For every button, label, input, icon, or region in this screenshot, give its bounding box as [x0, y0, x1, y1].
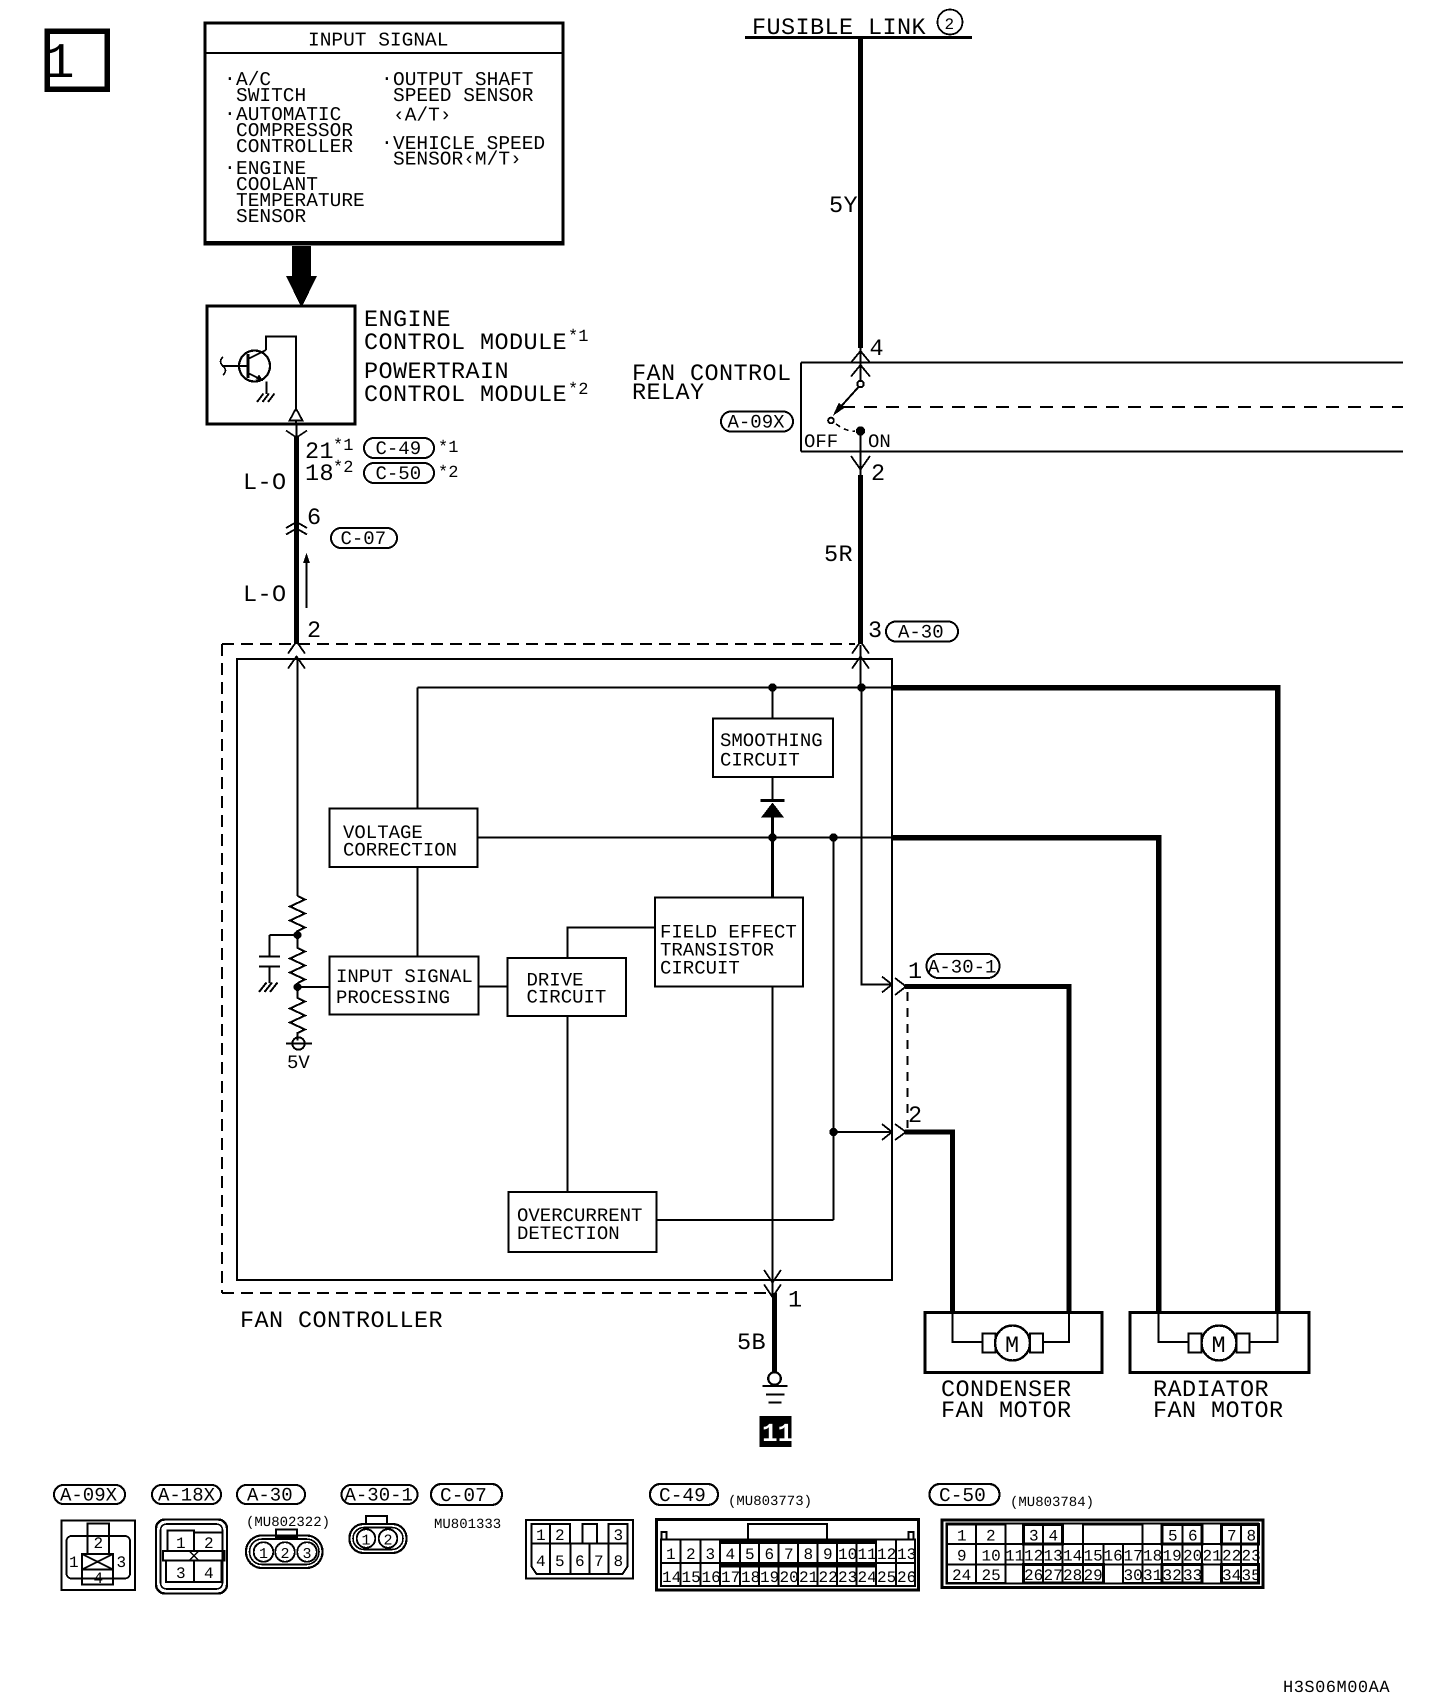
svg-text:CIRCUIT: CIRCUIT: [527, 987, 607, 1009]
svg-text:8: 8: [614, 1553, 624, 1571]
svg-text:1: 1: [536, 1527, 546, 1545]
resistor R1: [290, 896, 305, 935]
svg-text:L-O: L-O: [243, 582, 287, 609]
svg-text:*1: *1: [333, 437, 353, 456]
svg-text:A-30: A-30: [898, 622, 944, 644]
svg-text:CORRECTION: CORRECTION: [343, 840, 457, 862]
svg-text:5: 5: [1168, 1528, 1178, 1546]
transistor Q1 inside module: [221, 350, 271, 382]
svg-text:2: 2: [686, 1546, 696, 1564]
connector crossing 21/18 below module: [286, 431, 458, 489]
svg-text:9: 9: [957, 1548, 967, 1566]
svg-text:L-O: L-O: [243, 470, 287, 497]
svg-text:C-07: C-07: [440, 1485, 487, 1507]
connector A-18X pinout: [156, 1520, 227, 1594]
svg-text:11: 11: [858, 1546, 877, 1564]
svg-text:6: 6: [1188, 1528, 1198, 1546]
svg-text:22: 22: [819, 1569, 838, 1587]
svg-text:31: 31: [1143, 1567, 1162, 1585]
condenser fan motor M1: [925, 1313, 1102, 1373]
svg-text:SENSOR: SENSOR: [236, 206, 307, 228]
svg-text:16: 16: [702, 1569, 721, 1587]
svg-text:INPUT SIGNAL: INPUT SIGNAL: [308, 30, 448, 52]
svg-text:14: 14: [1063, 1548, 1082, 1566]
connector C-49 pinout: [657, 1520, 919, 1591]
ground symbol: [763, 1372, 788, 1402]
svg-text:1: 1: [176, 1535, 186, 1553]
svg-text:21: 21: [799, 1569, 818, 1587]
wire tap to ISP: [298, 986, 330, 988]
wire ISP to drive: [479, 986, 508, 988]
svg-text:6: 6: [575, 1553, 585, 1571]
fan controller inner solid box: [237, 659, 892, 1280]
svg-text:6: 6: [765, 1546, 775, 1564]
node dot main wire junction: [857, 683, 865, 691]
svg-text:H3S06M00AA: H3S06M00AA: [1283, 1679, 1390, 1698]
wire L-O from module: [295, 424, 297, 436]
collector wire to output triangle: [266, 337, 296, 409]
svg-text:19: 19: [1163, 1548, 1182, 1566]
svg-text:DETECTION: DETECTION: [517, 1223, 620, 1245]
connector tag A-30: [237, 1485, 305, 1507]
svg-text:18: 18: [305, 461, 334, 488]
svg-text:3: 3: [303, 1546, 312, 1563]
svg-text:32: 32: [1163, 1567, 1182, 1585]
svg-text:24: 24: [952, 1567, 971, 1585]
svg-text:18: 18: [1143, 1548, 1162, 1566]
svg-text:PROCESSING: PROCESSING: [336, 987, 450, 1009]
connector C-07 pinout: [526, 1520, 633, 1579]
svg-text:6: 6: [307, 505, 322, 532]
relay energize dashed line: [842, 406, 1403, 408]
relay pin 4: [851, 336, 884, 377]
fan control relay label: [632, 361, 792, 407]
svg-text:2: 2: [555, 1527, 565, 1545]
svg-text:FAN MOTOR: FAN MOTOR: [1153, 1398, 1284, 1425]
svg-text:25: 25: [877, 1569, 896, 1587]
supply rail top: [418, 687, 893, 689]
node junction signal tap: [294, 983, 302, 991]
wire diode to FET: [771, 817, 774, 898]
svg-text:1: 1: [69, 1554, 79, 1572]
wire 5B: [772, 1293, 777, 1372]
svg-text:11: 11: [1005, 1548, 1024, 1566]
svg-text:CONTROL MODULE: CONTROL MODULE: [364, 330, 567, 357]
svg-text:1: 1: [908, 959, 923, 986]
svg-text:*1: *1: [438, 439, 458, 458]
pin 2 A-30-1 crossing: [882, 1103, 923, 1140]
svg-text:20: 20: [780, 1569, 799, 1587]
svg-text:M: M: [1212, 1333, 1227, 1360]
svg-text:ON: ON: [868, 431, 891, 453]
svg-text:8: 8: [1247, 1528, 1257, 1546]
svg-text:1: 1: [666, 1546, 676, 1564]
svg-text:2: 2: [871, 461, 886, 488]
node dot diode line junction: [768, 833, 776, 841]
svg-text:2: 2: [945, 16, 955, 34]
C-49 keyed band: [720, 1540, 876, 1545]
fan control relay box: [801, 363, 1403, 452]
svg-text:5V: 5V: [287, 1052, 310, 1074]
svg-text:26: 26: [897, 1569, 916, 1587]
svg-text:‹A/T›: ‹A/T›: [393, 105, 452, 127]
svg-text:4: 4: [204, 1565, 214, 1583]
svg-text:MU801333: MU801333: [434, 1517, 501, 1533]
svg-text:20: 20: [1183, 1548, 1202, 1566]
svg-text:13: 13: [1044, 1548, 1063, 1566]
wire drive to overcurrent: [567, 1016, 569, 1193]
svg-text:2: 2: [94, 1535, 104, 1553]
svg-text:28: 28: [1063, 1567, 1082, 1585]
INPUT SIGNAL list right column: [381, 68, 545, 171]
radiator feed wire upper: [892, 688, 1278, 1314]
svg-text:1: 1: [362, 1533, 371, 1550]
engine control module box U1: [207, 306, 355, 424]
input signal processing box: [330, 957, 479, 1015]
svg-text:M: M: [1005, 1333, 1020, 1360]
node dot smoothing tap: [768, 683, 776, 691]
wire 5Y: [858, 38, 863, 349]
wire from A-30 into controller: [859, 645, 861, 688]
svg-text:35: 35: [1242, 1567, 1261, 1585]
connector A-30-1 pinout: [350, 1516, 407, 1553]
svg-text:A-30-1: A-30-1: [345, 1485, 413, 1507]
svg-text:CIRCUIT: CIRCUIT: [720, 750, 800, 772]
svg-text:15: 15: [1084, 1548, 1103, 1566]
svg-text:FAN CONTROLLER: FAN CONTROLLER: [240, 1308, 443, 1335]
wire into resistor chain: [297, 659, 299, 896]
svg-text:3: 3: [176, 1565, 186, 1583]
svg-text:·: ·: [224, 68, 236, 90]
svg-text:CONTROL MODULE: CONTROL MODULE: [364, 382, 567, 409]
svg-text:5R: 5R: [824, 542, 853, 569]
svg-text:12: 12: [877, 1546, 896, 1564]
svg-text:7: 7: [1227, 1528, 1237, 1546]
svg-text:15: 15: [682, 1569, 701, 1587]
svg-text:·: ·: [224, 157, 236, 179]
svg-text:7: 7: [784, 1546, 794, 1564]
pin 1 exit crossing: [764, 1270, 803, 1315]
wire VC top: [417, 688, 419, 809]
connector tag C-50: [930, 1484, 1000, 1507]
svg-text:23: 23: [838, 1569, 857, 1587]
svg-text:5B: 5B: [737, 1330, 766, 1357]
svg-text:26: 26: [1024, 1567, 1043, 1585]
svg-text:29: 29: [1084, 1567, 1103, 1585]
svg-text:A-09X: A-09X: [60, 1485, 118, 1507]
C-50 row 3 cells: [947, 1565, 1259, 1584]
svg-text:7: 7: [594, 1553, 604, 1571]
C-50 numbers: [952, 1528, 1261, 1586]
svg-text:17: 17: [721, 1569, 740, 1587]
emitter-follower triangle: [290, 409, 303, 421]
svg-text:1: 1: [788, 1288, 803, 1315]
svg-text:2: 2: [307, 618, 322, 645]
svg-text:(MU803773): (MU803773): [728, 1494, 812, 1510]
svg-text:4: 4: [726, 1546, 736, 1564]
connector tag A-30-1: [342, 1485, 418, 1507]
svg-text:*2: *2: [568, 381, 588, 400]
svg-text:C-07: C-07: [341, 528, 387, 550]
wire VC to ISP: [417, 867, 419, 957]
svg-text:·: ·: [224, 103, 236, 125]
svg-text:21: 21: [1203, 1548, 1222, 1566]
fan controller dashed box: [222, 644, 855, 1293]
capacitor chassis ground: [259, 983, 278, 993]
svg-text:33: 33: [1183, 1567, 1202, 1585]
field effect transistor circuit box: [655, 898, 803, 987]
svg-text:CIRCUIT: CIRCUIT: [660, 958, 740, 980]
ground number 11: [760, 1416, 794, 1449]
C-50 row 2 cells: [947, 1544, 1258, 1565]
svg-text:4: 4: [536, 1553, 546, 1571]
svg-text:3: 3: [868, 618, 883, 645]
svg-text:3: 3: [117, 1554, 127, 1572]
module labels: [364, 307, 588, 409]
svg-text:4: 4: [94, 1570, 104, 1588]
svg-text:C-50: C-50: [376, 463, 422, 485]
resistor R3: [290, 987, 305, 1041]
svg-text:*2: *2: [333, 459, 353, 478]
svg-text:12: 12: [1024, 1548, 1043, 1566]
resistor R2: [290, 935, 305, 983]
svg-text:5: 5: [745, 1546, 755, 1564]
wire overcurrent feedback: [658, 1219, 834, 1221]
svg-text:17: 17: [1124, 1548, 1143, 1566]
pin 1 A-30-1 crossing: [882, 954, 1000, 995]
svg-text:A-30-1: A-30-1: [928, 957, 996, 979]
svg-text:1: 1: [957, 1528, 967, 1546]
wire drive to FET: [568, 928, 656, 959]
drive circuit box: [508, 958, 627, 1016]
svg-text:OFF: OFF: [804, 431, 838, 453]
svg-text:14: 14: [662, 1569, 681, 1587]
svg-text:C-49: C-49: [659, 1485, 706, 1507]
svg-text:1: 1: [45, 36, 75, 93]
svg-text:22: 22: [1222, 1548, 1241, 1566]
INPUT SIGNAL box: [205, 23, 563, 244]
condenser fan return wire: [905, 1132, 953, 1313]
svg-text:25: 25: [982, 1567, 1001, 1585]
svg-text:RELAY: RELAY: [632, 380, 705, 407]
relay pin 2: [851, 456, 886, 488]
svg-text:34: 34: [1222, 1567, 1241, 1585]
smoothing circuit box: [713, 719, 833, 778]
svg-text:2: 2: [986, 1528, 996, 1546]
svg-text:13: 13: [897, 1546, 916, 1564]
svg-text:FAN MOTOR: FAN MOTOR: [941, 1398, 1072, 1425]
connector tag C-07: [431, 1484, 502, 1507]
C-49 pin grid: [661, 1540, 915, 1587]
svg-text:8: 8: [804, 1546, 814, 1564]
svg-text:4: 4: [1049, 1528, 1059, 1546]
connector tag A-09X: [721, 412, 793, 434]
svg-text:CONTROLLER: CONTROLLER: [236, 136, 353, 158]
connector C-50 pinout: [942, 1520, 1263, 1588]
svg-text:A-18X: A-18X: [158, 1485, 216, 1507]
svg-text:C-49: C-49: [376, 438, 422, 460]
svg-text:A-09X: A-09X: [728, 412, 786, 434]
connector crossing 6 (C-07): [286, 505, 397, 550]
svg-text:18: 18: [741, 1569, 760, 1587]
capacitor C1 branch: [259, 935, 298, 983]
direction arrow beside wire: [303, 553, 310, 608]
relay switch: [828, 363, 864, 452]
pin2 feedback lateral: [834, 1131, 893, 1133]
connector tag A-09X: [54, 1485, 125, 1507]
svg-text:1: 1: [259, 1546, 268, 1563]
svg-text:23: 23: [1242, 1548, 1261, 1566]
svg-text:10: 10: [838, 1546, 857, 1564]
svg-text:2: 2: [384, 1533, 393, 1550]
wire 5R: [859, 452, 861, 476]
overcurrent detection box: [509, 1192, 657, 1252]
big input arrow: [286, 246, 317, 308]
node dot overcurrent branch: [829, 833, 837, 841]
connector crossing 3 (A-30): [852, 618, 958, 669]
svg-text:3: 3: [706, 1546, 716, 1564]
chassis ground inside module: [257, 394, 275, 403]
connector A-30 pinout: [246, 1530, 323, 1569]
svg-text:*2: *2: [438, 464, 458, 483]
svg-text:C-50: C-50: [939, 1485, 986, 1507]
svg-text:4: 4: [870, 336, 885, 363]
5V supply terminal: [286, 1037, 312, 1049]
main wire down to pin 1 lateral: [862, 688, 893, 985]
svg-text:A-30: A-30: [247, 1485, 293, 1507]
svg-text:9: 9: [823, 1546, 833, 1564]
svg-text:24: 24: [858, 1569, 877, 1587]
diode D1: [761, 801, 785, 818]
radiator feed wire lower: [892, 838, 1159, 1314]
svg-text:INPUT SIGNAL: INPUT SIGNAL: [336, 966, 473, 988]
node dot pin2 branch: [829, 1128, 837, 1136]
node junction capacitor tap: [294, 931, 302, 939]
FET output wire to pin 1: [771, 987, 773, 1296]
smoothing circuit drop wire: [772, 688, 774, 719]
dashed connector link A-30-1: [907, 992, 909, 1128]
sheet number box 1: [45, 31, 108, 93]
svg-text:2: 2: [908, 1103, 923, 1130]
svg-text:(MU803784): (MU803784): [1010, 1495, 1094, 1511]
FUSIBLE LINK label: [745, 10, 972, 43]
svg-text:*1: *1: [568, 328, 588, 347]
svg-text:2: 2: [204, 1535, 214, 1553]
svg-text:·: ·: [381, 132, 393, 154]
voltage correction box: [330, 809, 478, 868]
svg-text:10: 10: [982, 1548, 1001, 1566]
svg-text:5Y: 5Y: [829, 193, 858, 220]
svg-text:16: 16: [1104, 1548, 1123, 1566]
svg-text:19: 19: [760, 1569, 779, 1587]
connector tag C-49: [650, 1484, 718, 1507]
svg-text:27: 27: [1044, 1567, 1063, 1585]
svg-text:3: 3: [1029, 1528, 1039, 1546]
C-50 row 1 cells: [947, 1525, 1259, 1545]
svg-text:·: ·: [381, 68, 393, 90]
svg-text:11: 11: [762, 1419, 793, 1449]
svg-text:3: 3: [614, 1527, 624, 1545]
INPUT SIGNAL list left column: [224, 68, 365, 228]
wire smoothing to diode: [772, 777, 774, 801]
connector A-09X pinout: [62, 1521, 136, 1591]
condenser fan hot wire: [905, 987, 1069, 1314]
svg-text:SENSOR‹M/T›: SENSOR‹M/T›: [393, 149, 522, 171]
radiator fan motor M2: [1130, 1313, 1309, 1373]
connector tag A-18X: [152, 1485, 221, 1507]
svg-text:30: 30: [1124, 1567, 1143, 1585]
correction rail: [478, 837, 893, 839]
svg-text:5: 5: [555, 1553, 565, 1571]
svg-text:2: 2: [281, 1546, 290, 1563]
